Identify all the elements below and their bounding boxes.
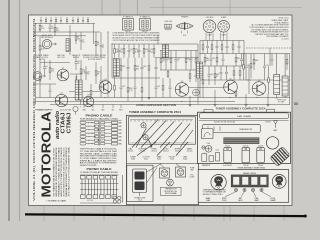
resistor <box>49 60 54 80</box>
svg-text:1 2 3 4 5: 1 2 3 4 5 <box>87 200 93 202</box>
capacitor <box>120 78 126 98</box>
junction <box>141 97 142 98</box>
Motorola logo text <box>39 111 54 198</box>
svg-text:R31: R31 <box>122 66 125 68</box>
svg-text:100: 100 <box>206 60 209 62</box>
svg-text:R48: R48 <box>255 60 258 62</box>
chassis inner line <box>199 120 289 122</box>
junction <box>157 43 158 44</box>
capacitor <box>175 51 181 71</box>
svg-text:C46: C46 <box>247 65 250 67</box>
svg-text:CONNECTIONS AT THE RECEIVER: CONNECTIONS AT THE RECEIVER <box>80 171 119 174</box>
svg-text:.05: .05 <box>51 28 53 30</box>
wire <box>223 33 225 41</box>
svg-text:.05: .05 <box>120 51 122 53</box>
capacitor <box>50 18 52 24</box>
wire <box>33 83 56 85</box>
svg-text:C-613: C-613 <box>282 39 289 41</box>
transistor Q5 <box>224 78 238 93</box>
svg-text:SIX TRANSISTOR AUTO RADIO, 6 O: SIX TRANSISTOR AUTO RADIO, 6 OR 12 VOLT <box>52 147 55 197</box>
note label <box>57 54 66 59</box>
svg-text:6V-12V VIB: 6V-12V VIB <box>60 110 72 112</box>
svg-text:PERMEABILITY TUNER, AM 540-160: PERMEABILITY TUNER, AM 540-1600 KC BAND <box>57 147 60 197</box>
ground <box>148 78 151 99</box>
leader line <box>170 124 190 148</box>
capacitor <box>165 51 171 71</box>
svg-text:330: 330 <box>136 68 139 70</box>
capacitor <box>75 55 81 70</box>
power unit sub-panel <box>127 165 153 201</box>
resistor <box>75 32 81 44</box>
resistor <box>189 70 191 82</box>
capacitor <box>60 18 62 24</box>
svg-text:MANUAL AND PUSHBUTTON TUNING M: MANUAL AND PUSHBUTTON TUNING MODELS <box>65 147 68 197</box>
capacitor <box>118 44 124 58</box>
callout labels row 1 <box>128 147 193 152</box>
terminal strip <box>216 153 220 162</box>
svg-text:C4: C4 <box>72 18 74 20</box>
resistor <box>80 60 86 82</box>
capacitor <box>134 78 137 98</box>
speaker plug hole <box>266 137 278 149</box>
wire <box>189 87 224 89</box>
capacitor <box>155 58 158 78</box>
capacitor <box>226 41 229 54</box>
svg-text:MODEL CTM6J ONLY: MODEL CTM6J ONLY <box>203 194 224 196</box>
resistor <box>216 54 218 67</box>
output transformer T3 <box>270 147 290 167</box>
phono cable note <box>80 148 118 167</box>
dial glass bar <box>199 113 288 119</box>
svg-text:C4: C4 <box>40 18 42 20</box>
wire <box>33 31 100 33</box>
resistor <box>185 51 190 71</box>
note label <box>36 54 50 61</box>
model CTA6J <box>61 113 67 134</box>
svg-text:© HOWARD W. SAMS: © HOWARD W. SAMS <box>46 200 67 203</box>
leader line <box>137 142 156 156</box>
svg-text:NEGATIVE OR POSITIVE GROUND OP: NEGATIVE OR POSITIVE GROUND OPERATION <box>55 147 58 197</box>
svg-text:C4: C4 <box>82 18 84 20</box>
wire <box>200 53 290 55</box>
svg-text:C44: C44 <box>210 74 213 76</box>
dial scale labels <box>214 122 271 124</box>
divider <box>127 162 199 164</box>
svg-text:SPKR FRAME: SPKR FRAME <box>165 192 177 195</box>
ground <box>245 94 248 106</box>
jack <box>260 188 271 196</box>
resistor <box>167 70 169 78</box>
junction <box>107 31 108 32</box>
svg-text:OSC MOD: OSC MOD <box>206 17 214 19</box>
svg-text:220: 220 <box>51 70 54 72</box>
resistor <box>243 54 245 81</box>
resistor <box>221 41 223 54</box>
ground <box>267 94 270 106</box>
wire <box>35 24 37 105</box>
svg-text:47: 47 <box>216 76 218 78</box>
svg-text:OUTPUT METER ACROSS THE VOICE: OUTPUT METER ACROSS THE VOICE COIL TERMI… <box>113 39 161 42</box>
mounting tab <box>204 110 213 113</box>
transistor Q3 <box>99 79 112 93</box>
svg-text:OSC COIL: OSC COIL <box>57 57 65 59</box>
svg-text:C4: C4 <box>66 18 68 20</box>
IF can 255-43 <box>257 146 265 163</box>
svg-text:54 60 70 90 110 140: 54 60 70 90 110 140 <box>214 122 235 124</box>
svg-text:BELOW: BELOW <box>73 57 80 59</box>
svg-text:CTM6J: CTM6J <box>67 113 73 134</box>
wire <box>112 77 160 79</box>
resistor <box>127 78 133 102</box>
svg-text:40: 40 <box>102 46 104 48</box>
wire <box>199 41 201 98</box>
resistor <box>87 18 89 24</box>
capacitor <box>206 41 209 54</box>
set description note <box>52 147 70 197</box>
junction <box>199 53 200 54</box>
svg-text:25C4-2: 25C4-2 <box>140 150 146 152</box>
svg-text:C35: C35 <box>122 86 125 88</box>
dial pointer screw A <box>141 123 146 128</box>
wire <box>160 69 198 71</box>
model CTM6J <box>67 113 73 134</box>
svg-text:IF TRANS T1: IF TRANS T1 <box>123 15 133 18</box>
resistor <box>268 66 270 94</box>
svg-text:RECEPTACLE: RECEPTACLE <box>41 36 54 39</box>
capacitor <box>138 44 141 58</box>
tube socket V3 <box>218 16 230 36</box>
leader line <box>141 121 166 148</box>
connector socket row <box>231 175 268 187</box>
choke L2 <box>274 54 280 101</box>
svg-text:B-43: B-43 <box>170 159 174 161</box>
dial scale ticks <box>130 120 193 122</box>
wire <box>205 33 207 41</box>
note label <box>72 55 81 59</box>
resistor <box>202 41 204 54</box>
svg-text:25C4-1: 25C4-1 <box>128 150 134 152</box>
mounting tab <box>267 109 275 112</box>
wire <box>220 33 222 41</box>
resistor <box>45 18 47 24</box>
wire <box>157 35 159 44</box>
svg-text:25C4: 25C4 <box>138 200 142 202</box>
resistor <box>95 62 100 84</box>
svg-text:25C4-4: 25C4-4 <box>163 150 169 152</box>
capacitor <box>80 32 85 50</box>
svg-text:C-41 255-41: C-41 255-41 <box>223 165 232 167</box>
antenna lead-in bracket <box>201 129 213 139</box>
svg-text:C-41: C-41 <box>216 150 220 152</box>
capacitor <box>169 78 172 98</box>
capacitor <box>210 54 216 67</box>
buffer condenser <box>202 152 207 161</box>
capacitor <box>43 60 48 75</box>
junction <box>104 97 105 98</box>
svg-text:C4: C4 <box>87 18 89 20</box>
terminal <box>111 105 114 112</box>
svg-text:TUNER ASSEMBLY (REAR VIEW): TUNER ASSEMBLY (REAR VIEW) <box>237 167 265 170</box>
transistor note <box>82 54 107 61</box>
wire <box>243 41 245 67</box>
resistor <box>66 18 68 24</box>
svg-text:C4: C4 <box>60 18 62 20</box>
svg-text:PHONO CABLE: PHONO CABLE <box>87 167 112 171</box>
svg-text:8: 8 <box>102 82 103 84</box>
svg-text:AUDIO AMPLIFIER SECTION: AUDIO AMPLIFIER SECTION <box>136 104 176 107</box>
IF can 255-41 <box>224 146 232 163</box>
capacitor <box>113 58 119 78</box>
phono jack J2 <box>33 72 45 81</box>
svg-text:DIAL GLASS: DIAL GLASS <box>237 115 252 118</box>
svg-text:REAR VIEW: REAR VIEW <box>243 172 256 175</box>
svg-text:B-41: B-41 <box>144 159 148 161</box>
wire <box>200 65 244 67</box>
leader line <box>132 120 158 148</box>
capacitor <box>155 78 161 98</box>
svg-text:GRN: GRN <box>118 123 121 125</box>
transistor Q1 <box>57 67 69 80</box>
fuse holder <box>209 150 219 162</box>
leader line <box>160 164 165 168</box>
svg-text:255-42: 255-42 <box>243 146 248 148</box>
IF transformer T7 <box>113 59 119 77</box>
svg-text:55: 55 <box>294 101 298 106</box>
output transistor mount A <box>160 168 170 178</box>
resistor <box>133 44 139 58</box>
capacitor <box>222 54 225 67</box>
capacitor <box>49 24 54 33</box>
resistor <box>141 78 143 102</box>
terminal <box>119 105 123 112</box>
svg-text:B-44: B-44 <box>183 159 187 161</box>
capacitor <box>263 54 269 81</box>
resistor <box>160 51 165 71</box>
resistor <box>77 18 79 24</box>
junction <box>62 97 63 98</box>
wire <box>197 44 199 105</box>
dashed enclosure boundary <box>246 47 292 49</box>
tuner assembly callout box <box>127 115 199 204</box>
terminal <box>91 105 95 112</box>
capacitor <box>49 84 52 98</box>
resistor <box>211 41 213 54</box>
svg-text:68: 68 <box>97 73 99 75</box>
resistor <box>250 54 252 79</box>
svg-text:25C4-3: 25C4-3 <box>151 150 157 152</box>
resistor <box>195 51 197 71</box>
leader line <box>157 142 170 156</box>
svg-text:GRN: GRN <box>118 130 121 132</box>
wire <box>111 44 113 78</box>
resistor <box>170 51 172 71</box>
output transistor mount B <box>176 167 186 177</box>
svg-text:C41: C41 <box>212 58 215 60</box>
svg-text:B-40: B-40 <box>131 159 135 161</box>
wire <box>107 32 109 98</box>
transistor socket <box>167 179 174 186</box>
resistor <box>123 44 125 58</box>
IF transformer T2 <box>140 15 151 33</box>
resistor <box>55 18 57 24</box>
wire <box>269 48 271 66</box>
wire <box>226 33 228 41</box>
rear panel labels <box>206 197 276 202</box>
IF transformer T1 <box>123 15 134 33</box>
vibrator unit <box>133 169 147 196</box>
svg-text:SW: SW <box>191 170 194 172</box>
svg-text:.1: .1 <box>177 61 178 63</box>
capacitor <box>271 54 274 67</box>
wire <box>40 62 70 64</box>
wire <box>36 23 96 25</box>
svg-text:VC TAP: VC TAP <box>278 101 285 104</box>
wire <box>160 50 198 52</box>
auto radio subtitle <box>55 110 61 139</box>
jack <box>251 188 256 196</box>
wire <box>212 33 214 41</box>
ground <box>75 76 78 99</box>
IF can 255-42 <box>242 146 250 163</box>
resistor <box>39 60 41 98</box>
diode CR2 <box>193 89 200 96</box>
svg-text:C37: C37 <box>157 86 160 88</box>
leader line <box>150 122 174 148</box>
electrolytic C50 <box>73 106 82 115</box>
wire <box>93 24 95 45</box>
svg-text:POWER SUPPLY: POWER SUPPLY <box>36 109 54 111</box>
capacitor <box>141 58 147 78</box>
svg-text:TUNER ASSEMBLY COMPLETE 25C4: TUNER ASSEMBLY COMPLETE 25C4 <box>216 108 267 111</box>
jack <box>241 188 246 196</box>
junction <box>181 101 182 102</box>
svg-text:.05: .05 <box>77 63 79 65</box>
resistor <box>202 66 204 98</box>
dial backing plate <box>203 124 261 132</box>
svg-text:MOTOROLA: MOTOROLA <box>39 111 54 198</box>
svg-text:GRN: GRN <box>118 140 121 142</box>
capacitor <box>190 51 193 71</box>
terminal <box>82 105 86 112</box>
capacitor <box>72 18 74 24</box>
thermistor note <box>161 187 182 195</box>
svg-text:6V-12V: 6V-12V <box>39 59 46 61</box>
svg-text:25C4-6: 25C4-6 <box>187 150 193 152</box>
leader line <box>160 123 182 148</box>
leader line <box>180 130 193 148</box>
resistor <box>214 66 219 85</box>
resistor <box>235 90 237 98</box>
svg-text:255-43: 255-43 <box>258 146 263 148</box>
svg-text:470: 470 <box>56 30 59 32</box>
wire <box>200 40 244 42</box>
capacitor <box>40 18 42 24</box>
wire <box>69 91 100 93</box>
chassis top view outline <box>198 112 291 163</box>
capacitor <box>100 66 106 98</box>
dial pointer screw B <box>143 135 148 140</box>
capacitor <box>128 44 134 58</box>
resistor <box>134 58 139 78</box>
capacitor <box>85 66 91 80</box>
jack <box>225 188 238 196</box>
tube socket V2 <box>203 17 216 36</box>
parts note <box>250 18 290 41</box>
leader line <box>149 140 153 148</box>
interstage transformer T5 <box>75 74 82 105</box>
resistor <box>95 32 100 55</box>
resistor <box>39 24 45 33</box>
junction <box>69 31 70 32</box>
resistor <box>232 41 234 54</box>
svg-text:C-40: C-40 <box>206 143 210 145</box>
antenna jack J1 <box>41 34 56 48</box>
junction <box>35 23 36 24</box>
capacitor <box>225 66 228 80</box>
svg-text:TUNER ASSEMBLY COMPLETE 25C4: TUNER ASSEMBLY COMPLETE 25C4 <box>129 110 182 114</box>
tone labels <box>190 168 196 179</box>
svg-text:.01: .01 <box>87 73 89 75</box>
dial scale panel <box>129 117 196 144</box>
callout labels row 2 <box>130 156 187 161</box>
wire <box>200 79 290 81</box>
resistor <box>114 78 116 98</box>
capacitor <box>195 70 198 82</box>
svg-text:C4: C4 <box>45 18 47 20</box>
svg-text:Q3: Q3 <box>104 79 106 81</box>
wire <box>36 97 291 99</box>
svg-text:Q2: Q2 <box>60 93 62 95</box>
capacitor <box>82 18 84 24</box>
wire <box>69 25 71 55</box>
svg-text:SEE PAGES 54-57 FOR ALIGNMENT: SEE PAGES 54-57 FOR ALIGNMENT DATA <box>68 147 71 197</box>
svg-text:AUDIO OUTPUT 8 WATTS PUSH PULL: AUDIO OUTPUT 8 WATTS PUSH PULL CLASS B <box>60 147 63 197</box>
terminal <box>101 105 105 112</box>
power unit label <box>134 198 146 202</box>
svg-text:PLUG: PLUG <box>222 200 227 202</box>
leader line <box>176 142 188 156</box>
svg-text:GRN: GRN <box>118 126 121 128</box>
driver transformer T8 <box>197 62 203 78</box>
ground <box>214 90 217 106</box>
svg-text:255-41: 255-41 <box>225 146 230 148</box>
junction <box>229 97 230 98</box>
dial lamp access <box>272 175 286 189</box>
spark plate <box>205 146 212 153</box>
svg-text:Q1: Q1 <box>62 67 64 69</box>
junction <box>243 53 244 54</box>
resistor <box>90 84 92 102</box>
junction <box>111 43 112 44</box>
svg-text:YEL: YEL <box>111 109 114 111</box>
svg-text:.02: .02 <box>150 51 152 53</box>
wire <box>155 57 198 59</box>
transistor Q7 <box>83 95 93 107</box>
resistor <box>162 78 164 98</box>
svg-text:R42: R42 <box>237 58 240 60</box>
svg-text:GRN: GRN <box>118 133 121 135</box>
svg-text:WHT: WHT <box>119 109 123 111</box>
wire <box>289 54 291 105</box>
capacitor <box>127 58 130 78</box>
resistor <box>233 66 235 80</box>
spare fuse holder <box>211 175 226 190</box>
svg-text:B-42: B-42 <box>157 159 161 161</box>
service note <box>113 32 161 42</box>
wire <box>50 104 290 106</box>
transistor Q2 <box>55 93 67 107</box>
junction <box>197 57 198 58</box>
